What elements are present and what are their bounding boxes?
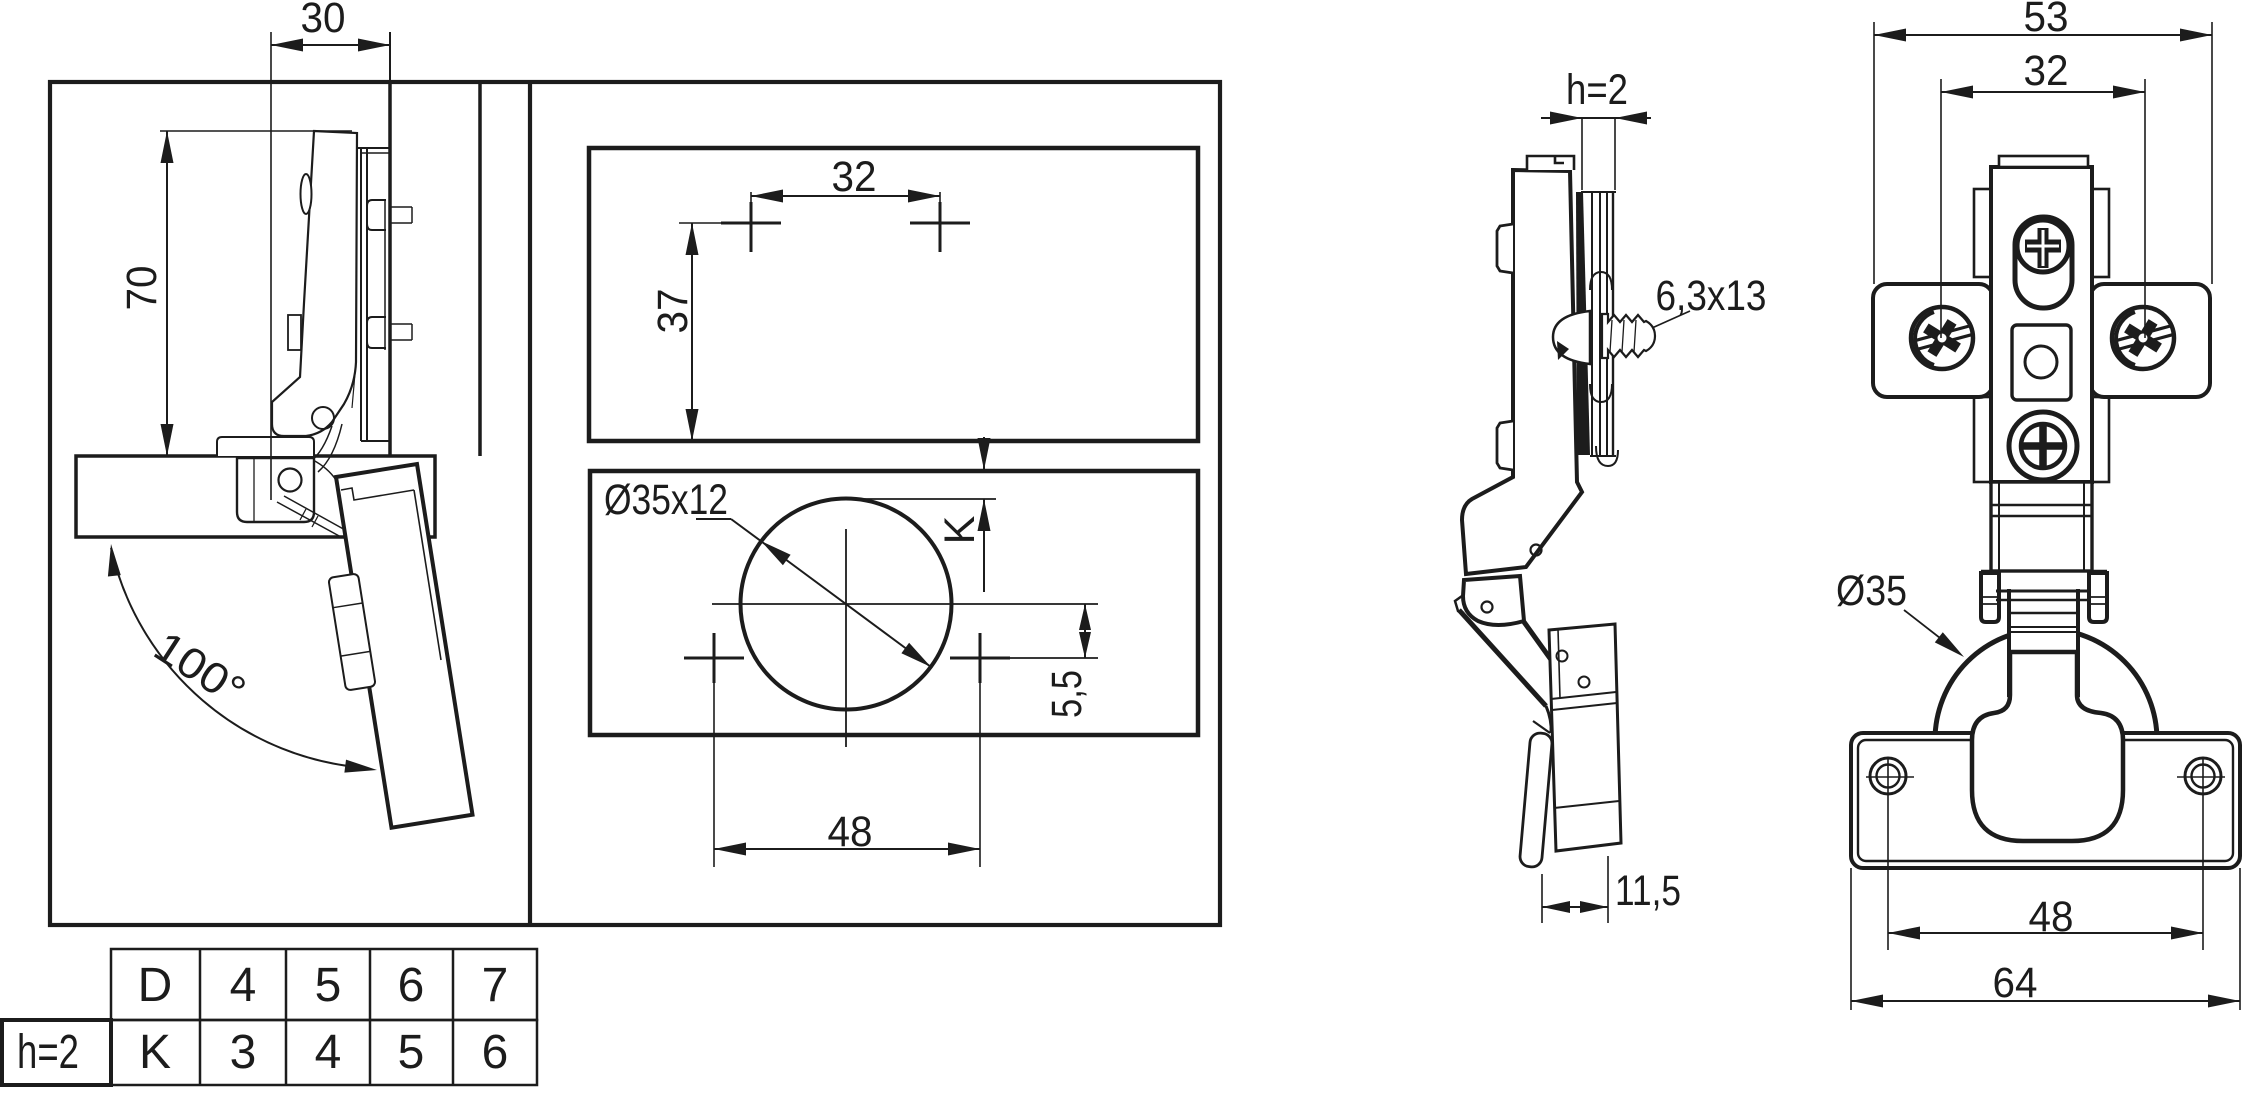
- svg-text:5: 5: [398, 1026, 425, 1079]
- arm top cap: [1527, 156, 1574, 170]
- mounting plate (side view): [1591, 192, 1593, 456]
- drill cross right (48): [950, 657, 1010, 660]
- neck between knuckle and cup: [2007, 587, 2080, 696]
- svg-text:D: D: [138, 959, 173, 1012]
- svg-text:h=2: h=2: [17, 1026, 79, 1079]
- knuckle pin left: [1981, 573, 1999, 622]
- svg-text:3: 3: [230, 1026, 257, 1079]
- svg-text:7: 7: [482, 959, 509, 1012]
- circle centerlines: [845, 529, 847, 747]
- hinge flange plateau on shelf: [217, 437, 314, 456]
- drilling pattern: door panel rect (bottom): [590, 471, 1198, 735]
- right wing screw: [2112, 307, 2174, 369]
- cabinet bottom shelf (left view): [76, 456, 435, 537]
- svg-text:6: 6: [398, 959, 425, 1012]
- side view hinge arm body: [1462, 170, 1582, 574]
- cup housing on door: [328, 573, 375, 690]
- oval slot with adjustment screw: [2015, 217, 2072, 308]
- linkage curves between arm and cup: [311, 426, 332, 461]
- lever to cup: [1459, 610, 1546, 706]
- cup arch O35 (front view): [1935, 629, 2157, 740]
- euro screw 6,3x13: [1602, 314, 1655, 358]
- knuckle pin right: [2089, 573, 2107, 622]
- square window with hole: [2012, 325, 2071, 400]
- baseplate (front view): [1851, 733, 2240, 868]
- svg-text:11,5: 11,5: [1615, 867, 1681, 915]
- arm lower section: [1991, 482, 2092, 571]
- cup hole circle O35x12: [741, 499, 952, 710]
- baseplate hole right: [2185, 758, 2221, 794]
- door inner side line: [414, 490, 441, 660]
- svg-text:70: 70: [118, 266, 166, 311]
- svg-text:4: 4: [315, 1026, 342, 1079]
- svg-text:5,5: 5,5: [1043, 670, 1091, 718]
- open door (100 deg): [336, 464, 473, 828]
- flap edge fold: [1455, 596, 1464, 613]
- h=2 cell: [2, 1020, 111, 1085]
- cup pivot circle: [279, 469, 302, 492]
- 100 degree swing arc: [111, 548, 367, 768]
- bottom cam screw: [2009, 412, 2077, 480]
- screw slot on arm: [288, 315, 301, 350]
- svg-text:h=2: h=2: [1566, 66, 1628, 114]
- svg-text:30: 30: [301, 0, 346, 42]
- svg-text:K: K: [139, 1026, 171, 1079]
- screw hole cross left (32): [721, 222, 781, 225]
- svg-text:K: K: [936, 515, 984, 544]
- arm left tab upper: [1497, 224, 1513, 273]
- table grid: [111, 949, 537, 1020]
- baseplate hole left: [1870, 758, 1906, 794]
- drilling pattern: door panel rect (top): [589, 148, 1198, 441]
- hinge arm (left view, door open): [272, 131, 357, 436]
- knuckle band: [1981, 570, 2107, 573]
- hinge cup in shelf (left view): [237, 458, 314, 522]
- svg-text:Ø35: Ø35: [1836, 567, 1907, 615]
- mounting plate right wing: [2090, 284, 2210, 397]
- adjustment screw oval on arm: [301, 174, 312, 214]
- arm left tab lower: [1497, 421, 1513, 470]
- divider line: [528, 82, 532, 925]
- svg-text:37: 37: [649, 289, 697, 334]
- front view arm column: [1991, 167, 2092, 482]
- euro screw upper (left view): [367, 200, 386, 230]
- arm pivot circle: [312, 407, 334, 429]
- column top cap: [1999, 156, 2088, 167]
- cup bulb: [1972, 652, 2123, 841]
- black gap wedge between arm and plate: [1576, 192, 1590, 455]
- pivot flap below knee: [1463, 576, 1524, 625]
- svg-text:6: 6: [482, 1026, 509, 1079]
- drill cross left (48): [684, 657, 744, 660]
- door inner top line: [341, 488, 414, 500]
- svg-text:64: 64: [1993, 959, 2038, 1007]
- big outer rectangle: [50, 82, 1220, 925]
- left wing screw: [1911, 307, 1973, 369]
- euro screw lower (left view): [367, 317, 386, 348]
- mounting plate on side panel (left view): [360, 148, 362, 441]
- svg-text:4: 4: [230, 959, 257, 1012]
- svg-text:32: 32: [832, 153, 877, 201]
- svg-text:6,3x13: 6,3x13: [1656, 272, 1767, 320]
- cup flange (side view): [1519, 732, 1553, 867]
- cup crossing hatch lines: [277, 502, 341, 537]
- svg-text:32: 32: [2024, 47, 2069, 95]
- cup body (side view): [1549, 624, 1621, 851]
- svg-text:Ø35x12: Ø35x12: [604, 476, 728, 524]
- screw hole cross right (32): [910, 222, 970, 225]
- mounting plate left wing: [1873, 284, 1993, 397]
- front view arm tabs behind plate: [1974, 189, 1991, 277]
- left view: cabinet side panel (vertical, closed door section): [388, 84, 392, 456]
- arm inner edge line: [300, 303, 304, 377]
- knee circle: [1531, 545, 1542, 556]
- svg-text:5: 5: [315, 959, 342, 1012]
- plate front screw head dome: [1553, 311, 1590, 364]
